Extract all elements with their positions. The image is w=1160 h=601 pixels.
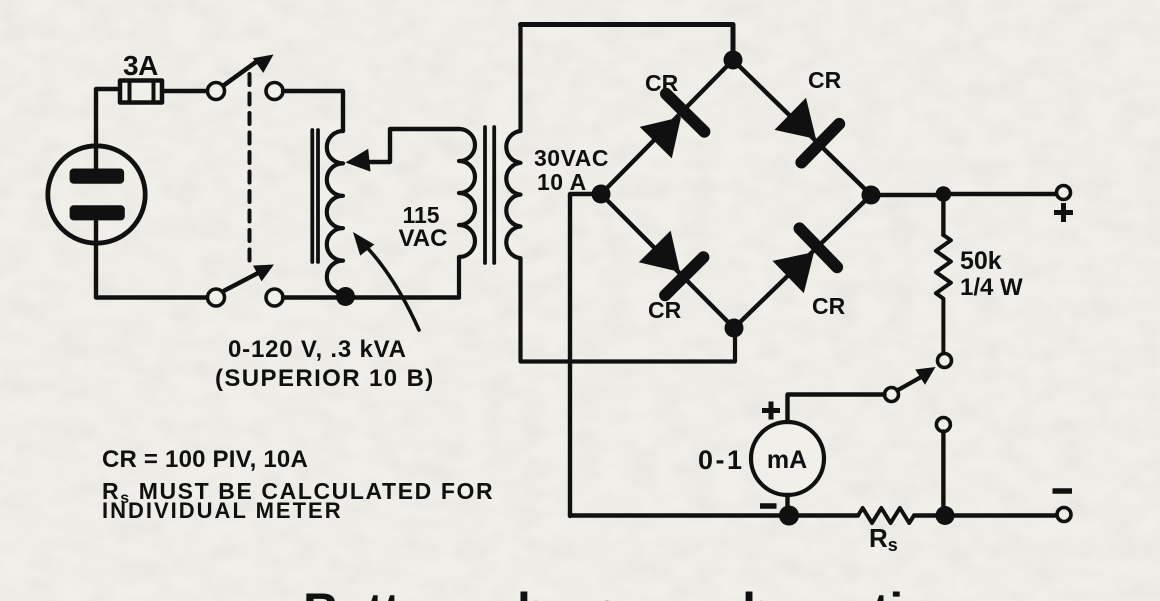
- switch S1b arrowhead: [253, 265, 274, 282]
- diode CR bottom-right triangle: [773, 252, 815, 293]
- switch S2 blade: [898, 377, 922, 391]
- wire bridge right node to plus junction: [871, 193, 943, 197]
- switch S1a blade: [224, 62, 257, 86]
- switch gang dashed link: [248, 74, 252, 268]
- svg-text:CR: CR: [808, 67, 842, 93]
- diode CR top-right triangle: [775, 98, 817, 139]
- svg-text:(SUPERIOR 10 B): (SUPERIOR 10 B): [215, 365, 435, 392]
- svg-text:mA: mA: [767, 446, 807, 474]
- wire variac bottom bus: [346, 295, 460, 299]
- switch S1b pole contact: [208, 289, 225, 306]
- diode CR top-left triangle: [640, 117, 681, 158]
- resistor 50k zigzag: [936, 235, 951, 354]
- svg-text:0-120 V, .3 kVA: 0-120 V, .3 kVA: [228, 336, 407, 363]
- terminal bottom right of switch: [266, 289, 283, 306]
- terminal negative branch top: [936, 418, 950, 432]
- svg-text:Battery charger schematic: Battery charger schematic: [303, 583, 931, 601]
- node bridge top: [724, 51, 743, 70]
- wire bridge arm top-left: [601, 60, 733, 194]
- wire junction to resistor 50k: [941, 194, 945, 235]
- transformer T2 primary winding: [459, 129, 475, 298]
- wire plus rail to terminal: [943, 192, 1056, 196]
- wire variac wiper to transformer primary: [364, 129, 459, 162]
- wire Rs to junction: [914, 513, 1057, 517]
- junction meter minus on bus: [779, 506, 799, 526]
- label output plus: [1054, 203, 1073, 222]
- transformer T2 secondary winding: [506, 25, 735, 362]
- svg-text:CR = 100 PIV, 10A: CR = 100 PIV, 10A: [102, 446, 308, 473]
- fuse F1 body: [120, 81, 162, 103]
- diode CR bottom-left triangle: [639, 231, 680, 272]
- svg-text:0-1: 0-1: [698, 445, 745, 475]
- wire secondary top to bridge top node: [521, 25, 734, 61]
- label meter minus: [760, 503, 777, 509]
- svg-text:INDIVIDUAL METER: INDIVIDUAL METER: [102, 498, 343, 523]
- wire bridge arm bottom-right: [734, 195, 871, 328]
- variac T1 core: [312, 130, 318, 262]
- wire plug top lead: [96, 89, 118, 171]
- label output minus: [1053, 488, 1073, 494]
- wire meter bottom lead: [785, 495, 789, 516]
- switch S1a pole contact: [208, 83, 225, 100]
- svg-text:3A: 3A: [123, 50, 158, 81]
- terminal 50k bottom: [938, 354, 952, 368]
- wire plug bottom lead: [96, 220, 206, 298]
- diode CR bottom-left cathode bar: [665, 257, 703, 295]
- wire bridge left node to negative bus: [570, 194, 601, 516]
- wire fuse to switch S1a: [162, 89, 206, 93]
- wire bridge arm top-right: [733, 60, 871, 195]
- junction variac bottom: [336, 287, 355, 306]
- label meter plus: [762, 402, 780, 420]
- svg-text:50k: 50k: [960, 247, 1002, 275]
- diode CR top-left cathode bar: [666, 94, 704, 132]
- svg-text:10 A: 10 A: [537, 169, 587, 195]
- meter M1 body: [751, 422, 824, 495]
- wire bridge arm bottom-left: [601, 194, 734, 328]
- resistor Rs zigzag: [858, 508, 914, 523]
- junction negative rail: [936, 506, 955, 525]
- node bridge bottom: [725, 319, 744, 338]
- wire terminal to variac bottom junction: [283, 295, 346, 299]
- svg-text:CR: CR: [812, 293, 846, 319]
- switch S2 wiper contact: [885, 388, 899, 402]
- junction plus rail: [936, 186, 952, 202]
- svg-text:CR: CR: [645, 70, 679, 96]
- svg-text:30VAC: 30VAC: [534, 145, 609, 171]
- wire terminal to variac top: [283, 91, 343, 131]
- wire meter plus to switch S2: [788, 395, 885, 421]
- terminal output minus: [1057, 508, 1071, 522]
- label pointer arrowhead: [353, 232, 374, 256]
- svg-text:VAC: VAC: [399, 225, 448, 252]
- terminal output plus: [1057, 186, 1071, 200]
- node bridge left: [592, 185, 611, 204]
- diode CR top-right cathode bar: [801, 124, 839, 163]
- label pointer arrow to variac: [358, 238, 419, 330]
- plug P1 prong lower: [70, 205, 125, 220]
- switch S1b blade: [225, 272, 261, 291]
- plug P1 prong upper: [70, 169, 125, 184]
- fuse F1 end caps: [130, 82, 154, 101]
- node bridge right: [862, 186, 881, 205]
- svg-text:CR: CR: [648, 297, 682, 323]
- variac T1 winding: [327, 131, 343, 293]
- wire negative bus: [570, 513, 858, 517]
- plug P1 body: [48, 146, 145, 243]
- variac T1 wiper arrowhead: [346, 149, 371, 172]
- wire negative branch: [941, 432, 945, 516]
- diode CR bottom-right cathode bar: [800, 228, 838, 267]
- svg-text:1/4 W: 1/4 W: [960, 274, 1023, 301]
- switch S2 arrowhead: [915, 367, 935, 385]
- switch S1a arrowhead: [253, 55, 274, 73]
- terminal top right of switch: [266, 83, 283, 100]
- transformer T2 core: [485, 127, 494, 263]
